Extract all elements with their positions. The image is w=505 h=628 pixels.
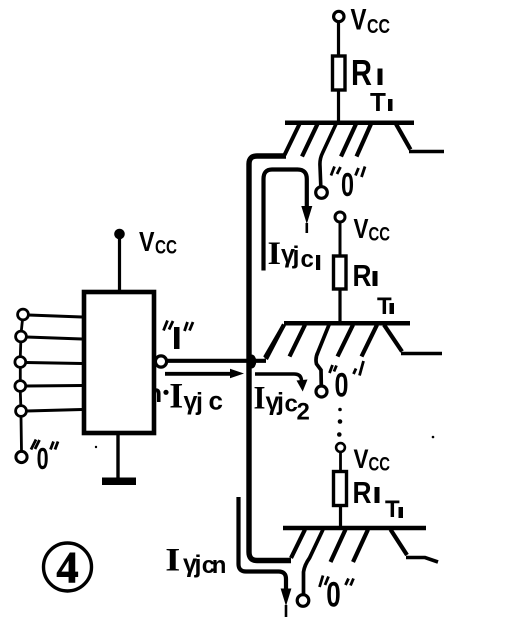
speck — [432, 436, 435, 439]
resistor R1 stage 2 — [334, 256, 347, 289]
label R1 stage 1 — [351, 52, 383, 93]
node ellipsis dots between stage 2 and stage n — [337, 408, 342, 437]
node input terminal 2 — [16, 331, 27, 342]
svg-text:j: j — [292, 242, 300, 270]
transistor T1 stage 2 body bar — [284, 321, 410, 326]
wire hook arrow current I1 — [264, 170, 313, 271]
label "0" input — [31, 440, 58, 477]
svg-text:j: j — [195, 388, 203, 416]
speck — [95, 446, 97, 448]
wire R1 to T1 stage n — [339, 505, 342, 529]
svg-text:T: T — [385, 496, 400, 523]
node Vcc terminal stage 1 — [334, 11, 344, 21]
node output "0" terminal stage n — [297, 595, 309, 607]
transistor T1 stage 1 left diagonal lead — [285, 124, 300, 155]
wire right lead stage 2 — [401, 352, 442, 356]
transistor T1 stage n right diagonal lead — [391, 530, 408, 556]
wire hook arrow current In — [239, 497, 292, 617]
node input terminal 1 — [18, 309, 29, 320]
svg-text:R: R — [353, 475, 372, 510]
transistor T1 stage n hatch 1 emitter to output — [304, 530, 324, 596]
wire input 5 — [27, 410, 83, 412]
svg-text:CC: CC — [369, 455, 391, 476]
transistor T1 stage 2 left diagonal lead — [265, 325, 284, 358]
node output "0" terminal stage 2 — [316, 386, 327, 397]
label R1 stage n — [353, 475, 380, 510]
wire arrow current n*I from gate — [165, 369, 244, 378]
label Vcc gate — [139, 226, 177, 259]
svg-text:I: I — [268, 236, 282, 272]
node input terminal 3 — [15, 357, 26, 368]
label "0" stage n — [320, 576, 354, 615]
node Vcc terminal stage 2 — [335, 212, 345, 222]
wire input 2 — [27, 337, 83, 339]
transistor T1 stage 2 hatch 3 — [338, 325, 354, 357]
svg-text:V: V — [354, 444, 369, 474]
transistor T1 stage 1 right diagonal lead — [396, 124, 411, 150]
transistor T1 stage 1 hatch 4 — [357, 124, 372, 157]
label Vcc stage n — [354, 444, 391, 476]
wire input 1 — [29, 315, 83, 317]
node Vcc terminal stage n — [336, 443, 345, 452]
wire input chain — [20, 320, 22, 452]
node output "0" terminal stage 1 — [316, 187, 328, 199]
node "0" input terminal — [16, 451, 27, 462]
node Vcc terminal gate — [114, 229, 125, 240]
label Vcc stage 1 — [351, 4, 391, 39]
svg-text:CC: CC — [369, 225, 391, 246]
transistor T1 stage 1 hatch 2 emitter to output — [320, 124, 336, 186]
label current n*I — [146, 376, 223, 416]
wire bus from T1 stage 1 to T1 stage n — [249, 156, 291, 561]
svg-text:2: 2 — [297, 399, 310, 426]
transistor T1 stage 2 hatch 2 emitter to output — [316, 325, 329, 386]
svg-text:V: V — [139, 226, 155, 257]
node input terminal 5 — [16, 406, 27, 417]
svg-text:0: 0 — [335, 367, 349, 405]
transistor T1 stage 1 hatch 1 — [302, 124, 318, 157]
label "0" stage 1 — [331, 166, 365, 203]
svg-text:0: 0 — [341, 166, 354, 203]
transistor T1 stage 1 hatch 3 — [341, 124, 356, 157]
svg-text:n: n — [212, 552, 227, 579]
wire R1 to T1 stage 1 — [337, 90, 340, 123]
transistor T1 stage n left diagonal lead — [291, 530, 305, 559]
resistor R1 stage n — [334, 472, 347, 506]
transistor T1 stage 1 body bar — [285, 121, 414, 126]
svg-text:R: R — [351, 52, 372, 93]
svg-text:0: 0 — [326, 576, 341, 615]
transistor T1 stage 2 right diagonal lead — [384, 325, 402, 352]
svg-text:I: I — [169, 376, 183, 416]
wire Vcc to R1 stage n — [339, 452, 342, 472]
node junction bus with gate output — [247, 355, 257, 369]
svg-text:c: c — [209, 386, 223, 416]
label T1 stage 1 — [370, 87, 393, 117]
transistor T1 stage n hatch 3 — [353, 530, 368, 563]
transistor T1 stage 2 hatch 1 — [290, 325, 306, 357]
wire right lead stage n — [406, 558, 438, 563]
label T1 stage 2 — [377, 293, 394, 320]
transistor T1 stage n hatch 2 — [331, 530, 346, 563]
svg-text:0: 0 — [37, 441, 49, 476]
label figure number 4 — [44, 543, 92, 592]
wire input 4 — [26, 384, 82, 388]
label T1 stage n — [385, 496, 403, 523]
svg-text:c: c — [301, 246, 314, 273]
logic gate box U1 — [84, 292, 154, 433]
svg-text:CC: CC — [367, 16, 390, 38]
svg-text:j: j — [194, 551, 202, 579]
label current I1 — [268, 236, 321, 273]
ground — [102, 478, 136, 486]
svg-text:V: V — [351, 4, 367, 37]
svg-text:R: R — [353, 258, 372, 293]
transistor T1 stage n body bar — [283, 526, 426, 531]
label current In — [165, 543, 226, 580]
svg-text:4: 4 — [57, 543, 79, 592]
svg-text:I: I — [165, 543, 180, 579]
wire bus to T1 stage 2 diagonal — [266, 325, 284, 360]
node input terminal 4 — [15, 381, 26, 392]
wire right lead stage 1 — [409, 150, 444, 154]
wire Vcc to gate — [118, 238, 121, 292]
svg-text:j: j — [276, 388, 284, 416]
label R1 stage 2 — [353, 258, 378, 293]
svg-text:T: T — [370, 87, 386, 117]
wire R1 to T1 stage 2 — [338, 289, 341, 324]
transistor T1 stage 2 hatch 4 — [362, 325, 378, 357]
label current I2 — [254, 381, 310, 426]
label Vcc stage 2 — [354, 213, 391, 246]
svg-text:V: V — [354, 213, 369, 244]
wire Vcc to R1 stage 2 — [339, 222, 342, 257]
label "0" stage 2 — [330, 361, 364, 405]
wire arrow current I2 — [255, 374, 308, 392]
wire gate ground pin — [116, 435, 119, 478]
wire gate output to bus — [167, 359, 266, 363]
node output "1" terminal gate — [155, 356, 166, 367]
label "1" output — [164, 321, 194, 350]
wire Vcc to R1 stage 1 — [337, 22, 340, 57]
svg-text:CC: CC — [155, 238, 177, 259]
wire input 3 — [26, 363, 82, 364]
resistor R1 stage 1 — [333, 56, 346, 90]
svg-text:I: I — [254, 381, 266, 417]
